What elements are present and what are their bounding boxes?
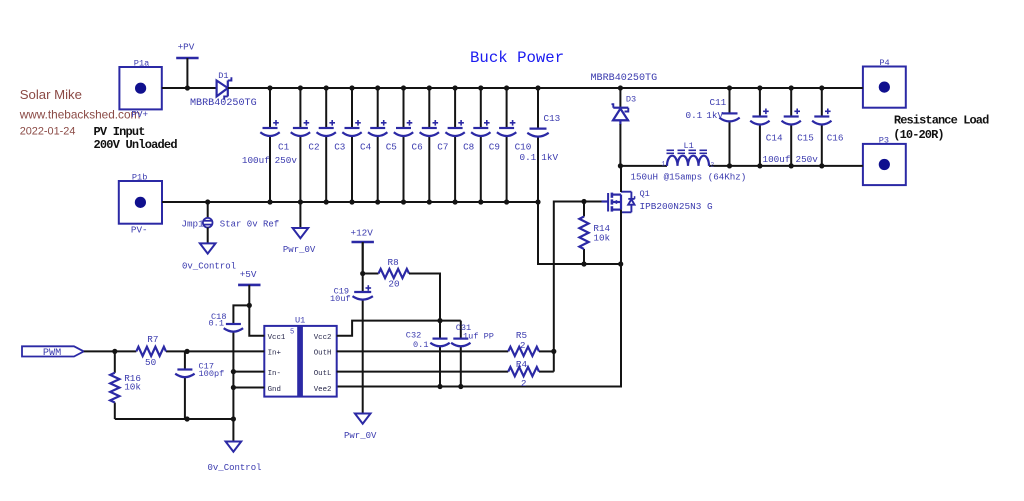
wire Vcc2 pin up and right xyxy=(337,321,461,336)
text PV Input / 200V Unloaded xyxy=(94,125,178,152)
capacitor C15 xyxy=(782,88,819,166)
svg-text:P1a: P1a xyxy=(134,58,149,68)
resistor R7 xyxy=(136,334,187,368)
connector P3 xyxy=(863,135,906,185)
wire R7 to In+ pin xyxy=(187,350,264,352)
svg-text:L1: L1 xyxy=(684,141,694,151)
junction dot gate/R5 xyxy=(551,349,556,354)
svg-text:+12V: +12V xyxy=(351,228,374,239)
svg-text:R7: R7 xyxy=(147,334,158,345)
resistor R8 xyxy=(363,257,409,290)
junction dot +5V node xyxy=(247,303,252,308)
svg-text:C6: C6 xyxy=(412,141,423,152)
capacitor C8 xyxy=(445,88,474,202)
svg-text:R8: R8 xyxy=(388,257,399,268)
capacitor C16 xyxy=(812,88,843,166)
capacitor C19 xyxy=(330,285,373,304)
wire In- pin xyxy=(233,371,264,373)
svg-text:C32: C32 xyxy=(406,330,421,340)
wire top bus D1 to P4 xyxy=(228,87,863,89)
capacitor C17 xyxy=(175,351,224,419)
svg-text:0.1: 0.1 xyxy=(686,110,703,121)
wire control ground rail xyxy=(115,418,234,420)
svg-text:200V Unloaded: 200V Unloaded xyxy=(94,138,178,152)
svg-text:0v_Control: 0v_Control xyxy=(208,463,262,473)
resistor R16 xyxy=(110,351,141,419)
svg-text:150uH @15amps (64Khz): 150uH @15amps (64Khz) xyxy=(631,172,747,183)
resistor R5 xyxy=(337,330,554,356)
capacitor C6 xyxy=(394,88,423,202)
svg-text:C2: C2 xyxy=(308,141,319,152)
wire +12V rail down to Pwr_0V xyxy=(362,243,364,292)
svg-text:Resistance Load: Resistance Load xyxy=(894,114,989,128)
junction dots source rail xyxy=(581,261,623,266)
junction dots In+ wire xyxy=(112,349,189,354)
resistor R4 xyxy=(337,359,554,389)
svg-text:In+: In+ xyxy=(268,350,282,358)
svg-text:C8: C8 xyxy=(463,141,474,152)
capacitor C5 xyxy=(368,88,397,202)
svg-text:C7: C7 xyxy=(437,141,448,152)
svg-text:Jmp1: Jmp1 xyxy=(181,218,204,229)
svg-text:20: 20 xyxy=(388,278,399,289)
svg-text:2: 2 xyxy=(711,162,715,169)
svg-text:OutL: OutL xyxy=(314,370,332,378)
wire R8 to Vcc2 node xyxy=(409,274,440,321)
svg-text:C1: C1 xyxy=(278,141,290,152)
net label PWM xyxy=(22,346,84,359)
wire C13 ground drop to source rail xyxy=(538,202,621,264)
svg-text:R4: R4 xyxy=(516,359,528,370)
svg-text:2: 2 xyxy=(521,378,527,389)
svg-text:Buck Power: Buck Power xyxy=(470,49,564,67)
svg-text:C4: C4 xyxy=(360,141,372,152)
connector P4 xyxy=(863,58,906,108)
capacitor C9 xyxy=(471,88,500,202)
svg-text:D1: D1 xyxy=(218,71,228,81)
wire +5V to Vcc1 xyxy=(249,305,264,335)
svg-text:10k: 10k xyxy=(593,233,610,244)
junction dots bottom bus xyxy=(205,199,541,204)
transistor Q1 xyxy=(602,189,714,212)
capacitor C18 xyxy=(209,305,250,419)
capacitor C31 xyxy=(451,321,494,388)
svg-text:PV-: PV- xyxy=(131,224,148,235)
junction dot R14 top xyxy=(581,199,586,204)
junction dots control ground rail xyxy=(185,416,236,421)
inductor L1 xyxy=(631,141,747,183)
capacitor C1 xyxy=(242,88,297,202)
junction dot R8 tap xyxy=(360,271,365,276)
svg-text:Star 0v Ref: Star 0v Ref xyxy=(220,219,279,229)
svg-text:10k: 10k xyxy=(124,381,141,392)
svg-text:PV Input: PV Input xyxy=(94,125,146,139)
svg-text:250v: 250v xyxy=(275,155,298,166)
svg-text:100uf: 100uf xyxy=(242,155,270,166)
capacitor C10 xyxy=(497,88,531,202)
wire gate to R5/R4 junction xyxy=(554,202,602,372)
svg-text:10uf: 10uf xyxy=(330,294,351,304)
diode D1 xyxy=(190,71,257,109)
connector P1a xyxy=(119,58,161,120)
jumper Jmp1 xyxy=(181,202,212,229)
capacitor C4 xyxy=(342,88,371,202)
svg-text:(10-20R): (10-20R) xyxy=(893,128,943,142)
ground 0v_Control (Jmp1) xyxy=(182,228,236,272)
wire Gnd pin xyxy=(233,387,264,389)
svg-text:Pwr_0V: Pwr_0V xyxy=(283,245,316,255)
junction dots top bus xyxy=(185,85,825,90)
connector P1b xyxy=(119,172,162,235)
wire bottom bus P1b to C13 leg xyxy=(162,201,538,203)
ic U1 xyxy=(264,316,336,397)
ground Pwr_0V (bus) xyxy=(283,202,316,255)
svg-text:C10: C10 xyxy=(515,141,532,152)
svg-text:0.1: 0.1 xyxy=(520,152,537,163)
svg-text:IPB200N25N3 G: IPB200N25N3 G xyxy=(640,201,714,212)
capacitor C32 xyxy=(406,321,450,388)
capacitor C11 xyxy=(686,88,740,166)
resistor R14 xyxy=(579,202,610,265)
svg-text:Pwr_0V: Pwr_0V xyxy=(344,431,377,441)
power symbol +5V xyxy=(238,269,260,305)
svg-text:1: 1 xyxy=(662,161,666,168)
junction dots output wire xyxy=(618,163,825,168)
svg-text:0v_Control: 0v_Control xyxy=(182,261,236,271)
svg-text:5: 5 xyxy=(290,329,294,337)
wire node A to L1 and output to P3 xyxy=(620,165,667,167)
svg-text:0.1: 0.1 xyxy=(209,319,224,329)
svg-text:Vcc2: Vcc2 xyxy=(314,334,332,342)
svg-text:P3: P3 xyxy=(879,135,889,145)
svg-text:2022-01-24: 2022-01-24 xyxy=(20,125,76,137)
svg-text:PWM: PWM xyxy=(43,348,61,359)
svg-text:0.1: 0.1 xyxy=(413,340,428,350)
svg-text:Solar Mike: Solar Mike xyxy=(20,87,82,102)
capacitor C14 xyxy=(750,88,790,166)
svg-text:C3: C3 xyxy=(334,141,345,152)
svg-text:Gnd: Gnd xyxy=(268,386,281,394)
svg-text:C16: C16 xyxy=(827,133,844,144)
svg-text:PV+: PV+ xyxy=(131,109,148,120)
svg-text:2: 2 xyxy=(520,340,526,351)
text Resistance Load (10-20R) xyxy=(893,114,989,142)
svg-text:U1: U1 xyxy=(295,316,305,326)
svg-text:1uf PP: 1uf PP xyxy=(463,332,494,342)
svg-text:1kV: 1kV xyxy=(541,152,558,163)
capacitor C7 xyxy=(420,88,449,202)
svg-text:MBRB40250TG: MBRB40250TG xyxy=(591,73,658,84)
capacitor C2 xyxy=(291,88,320,202)
svg-text:MBRB40250TG: MBRB40250TG xyxy=(190,98,257,109)
junction dots Vee2 rail xyxy=(437,384,463,389)
svg-text:P1b: P1b xyxy=(132,172,147,182)
svg-text:C11: C11 xyxy=(710,97,727,108)
wire PWM to R7 xyxy=(84,350,137,352)
svg-text:C14: C14 xyxy=(766,133,783,144)
svg-text:50: 50 xyxy=(145,357,156,368)
svg-text:Vee2: Vee2 xyxy=(314,386,332,394)
svg-text:100pf: 100pf xyxy=(199,369,225,379)
power symbol +12V xyxy=(351,228,374,274)
wire Q1 source down to Vee2 rail xyxy=(337,210,621,387)
svg-text:+PV: +PV xyxy=(178,41,195,52)
svg-text:OutH: OutH xyxy=(314,350,332,358)
svg-text:C9: C9 xyxy=(489,141,500,152)
svg-text:+5V: +5V xyxy=(240,269,257,280)
wire Q1 drain to node A xyxy=(620,166,622,192)
svg-text:1kV: 1kV xyxy=(706,110,723,121)
svg-text:C15: C15 xyxy=(797,133,814,144)
svg-text:Vcc1: Vcc1 xyxy=(268,334,286,342)
power symbol +PV xyxy=(176,41,198,88)
junction dots In-/Gnd xyxy=(231,369,236,390)
svg-text:Q1: Q1 xyxy=(640,189,650,199)
svg-text:C5: C5 xyxy=(386,141,397,152)
ground 0v_Control (driver) xyxy=(208,419,262,473)
junction dot Vcc2/C32 xyxy=(437,318,442,323)
diode D3 xyxy=(591,73,658,166)
capacitor C13 xyxy=(520,88,561,202)
svg-text:P4: P4 xyxy=(879,58,889,68)
wire P1a to D1 anode xyxy=(162,87,217,89)
svg-text:C13: C13 xyxy=(544,113,561,124)
svg-text:In-: In- xyxy=(268,370,281,378)
ground Pwr_0V (12V) xyxy=(344,414,377,442)
capacitor C3 xyxy=(317,88,346,202)
svg-text:250v: 250v xyxy=(796,154,819,165)
svg-text:100uf: 100uf xyxy=(763,154,791,165)
svg-text:D3: D3 xyxy=(626,95,636,105)
